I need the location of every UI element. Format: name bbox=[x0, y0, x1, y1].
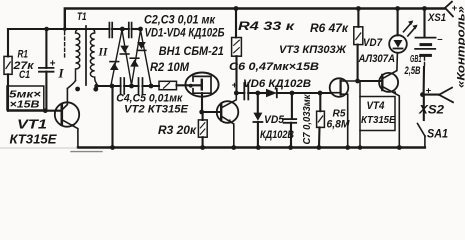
geiger tube BH1 anode bar bbox=[201, 80, 203, 90]
svg-text:VТ2 КТ315Е: VТ2 КТ315Е bbox=[124, 103, 189, 115]
diode VD5 bbox=[257, 93, 259, 113]
battery GB1 bbox=[423, 9, 425, 37]
diode VD2 leg bbox=[122, 30, 132, 85]
svg-text:КТ315Е: КТ315Е bbox=[361, 114, 396, 126]
connector XS2 bbox=[424, 94, 439, 96]
node junction rail (424.5,8.5) bbox=[422, 6, 427, 11]
node junction (292,93) bbox=[290, 91, 295, 96]
node junction (236.3,93) bbox=[234, 91, 239, 96]
svg-text:VТ3 КП303Ж: VТ3 КП303Ж bbox=[279, 44, 347, 56]
wire tube cathode down bbox=[201, 93, 203, 112]
wire C6 to VD6 bbox=[258, 92, 266, 94]
node junction (257.8,93) bbox=[255, 91, 260, 96]
svg-text:R4 33 к: R4 33 к bbox=[238, 21, 296, 33]
geiger tube BH1 cathode bbox=[193, 76, 211, 93]
wire between C2 C3 bbox=[112, 28, 129, 30]
capacitor C7 bbox=[291, 93, 293, 119]
svg-text:R2 10М: R2 10М bbox=[150, 60, 190, 74]
resistor R2 bbox=[159, 81, 177, 89]
svg-text:R3 20к: R3 20к bbox=[158, 123, 197, 137]
resistor R3 bbox=[202, 112, 204, 148]
node junction rail (318.9,147.5) bbox=[317, 145, 322, 150]
node junction (140.5,29) bbox=[138, 27, 143, 32]
wire shield dashed below rail corner bbox=[64, 32, 66, 58]
diode VD3 leg bbox=[132, 30, 141, 85]
capacitor C5 bbox=[138, 78, 140, 94]
node junction rail (347.7,147.5) bbox=[345, 145, 350, 150]
transistor VT4 bbox=[379, 73, 398, 92]
svg-text:VD7: VD7 bbox=[363, 37, 383, 49]
resistor R5 bbox=[319, 93, 320, 148]
svg-text:КД102В: КД102В bbox=[260, 129, 294, 141]
wire box edge to rail bbox=[359, 131, 361, 148]
svg-text:«Контроль»: «Контроль» bbox=[456, 6, 465, 88]
wire VT1 base bbox=[8, 110, 61, 112]
diode VD2 bbox=[120, 46, 129, 53]
switch SA1 bbox=[423, 95, 425, 120]
node junction rail (233.8,147.5) bbox=[231, 145, 236, 150]
svg-text:−: − bbox=[437, 35, 443, 46]
svg-text:XS2: XS2 bbox=[418, 103, 444, 117]
svg-text:XS1: XS1 bbox=[427, 12, 446, 24]
diode VD6 bbox=[266, 89, 277, 98]
svg-text:С1: С1 bbox=[19, 69, 30, 81]
wire T1 winding I bottom to VT1 collector bbox=[67, 81, 75, 89]
wire smudge below rail bbox=[71, 151, 102, 153]
transformer T1 core bbox=[85, 26, 87, 85]
capacitor C6 bbox=[236, 92, 257, 94]
svg-text:VТ1: VТ1 bbox=[17, 117, 47, 132]
wire VD6 to VT3 gate bbox=[277, 92, 331, 94]
transformer T1 winding I bbox=[76, 29, 80, 81]
node junction rail (399.3,147.5) bbox=[397, 145, 402, 150]
capacitor C2 bbox=[108, 23, 110, 38]
svg-text:VD6 КД102В: VD6 КД102В bbox=[243, 78, 311, 90]
node polarity dot winding I bbox=[75, 87, 80, 92]
node junction (320,93) bbox=[318, 91, 323, 96]
wire VT2 base bbox=[202, 111, 220, 113]
node junction rail (236,8.5) bbox=[234, 6, 239, 11]
svg-text:+: + bbox=[426, 86, 432, 97]
node junction (112,86) bbox=[110, 84, 115, 89]
svg-text:Т1: Т1 bbox=[77, 11, 87, 23]
node junction rail (258.3,147.5) bbox=[256, 145, 261, 150]
svg-text:R1: R1 bbox=[18, 49, 29, 61]
node junction rail (360,147.5) bbox=[358, 145, 363, 150]
svg-text:VD5: VD5 bbox=[264, 114, 285, 126]
diode VD1 bbox=[110, 63, 119, 70]
node junction rail (397.6,8.5) bbox=[395, 6, 400, 11]
diode VD3 bbox=[130, 59, 139, 66]
capacitor C3 bbox=[128, 23, 130, 38]
node junction rail (358.4,8.5) bbox=[356, 6, 361, 11]
transistor VT3 bbox=[330, 78, 349, 97]
resistor R6 bbox=[357, 9, 360, 82]
svg-text:I: I bbox=[58, 66, 65, 81]
node junction (46.8,29) bbox=[44, 27, 49, 32]
wire ground feeder from node 112 bbox=[111, 86, 113, 148]
diode VD4 bbox=[137, 42, 146, 49]
wire faint page crease bottom left bbox=[0, 147, 77, 149]
svg-text:II: II bbox=[98, 47, 108, 59]
svg-text:КТ315Е: КТ315Е bbox=[10, 132, 57, 147]
svg-text:С7 0,033мк: С7 0,033мк bbox=[302, 94, 313, 145]
svg-text:ВН1 СБМ-21: ВН1 СБМ-21 bbox=[159, 46, 224, 58]
wire node to VT4 label box bbox=[359, 81, 361, 97]
svg-text:6,8М: 6,8М bbox=[327, 118, 351, 130]
wire C3 to node2 bbox=[132, 28, 141, 30]
node junction rail (202.6,147.5) bbox=[200, 145, 205, 150]
geiger tube BH1 envelope bbox=[185, 73, 218, 97]
wire top supply rail bbox=[65, 9, 445, 30]
svg-text:С2,С3 0,01 мк: С2,С3 0,01 мк bbox=[144, 12, 216, 26]
transistor VT1 bbox=[55, 102, 79, 126]
svg-text:SА1: SА1 bbox=[427, 128, 448, 140]
diode VD4 leg bbox=[141, 30, 152, 85]
node junction rail (290.6,147.5) bbox=[288, 145, 293, 150]
wire VT3 drain to VT4 base bbox=[358, 80, 382, 82]
svg-text:С6 0,47мк×15В: С6 0,47мк×15В bbox=[229, 61, 319, 73]
node junction (122.3,29) bbox=[120, 27, 125, 32]
svg-text:GB1: GB1 bbox=[410, 54, 422, 65]
svg-text:R6 47к: R6 47к bbox=[310, 23, 349, 35]
node junction (151,86) bbox=[149, 84, 154, 89]
diode VD1 leg bbox=[111, 30, 122, 85]
capacitor C1 bbox=[45, 29, 47, 111]
resistor R1 bbox=[7, 29, 9, 111]
label box around VT4 bbox=[360, 97, 395, 131]
node polarity dot winding II bbox=[93, 87, 98, 92]
svg-text:×15В: ×15В bbox=[10, 99, 40, 111]
node junction (131.5,86) bbox=[129, 84, 134, 89]
wire R2 to tube anode bbox=[177, 84, 202, 86]
wire left branch y29 bbox=[8, 28, 109, 30]
label box around C1 value bbox=[7, 86, 44, 110]
svg-text:АЛ307А: АЛ307А bbox=[358, 53, 395, 65]
node junction (64.8,29) bbox=[63, 27, 67, 31]
transistor VT2 bbox=[217, 101, 239, 123]
node anode blob bbox=[189, 84, 193, 88]
capacitor C4 bbox=[120, 78, 122, 94]
node junction (357.6,81) bbox=[355, 79, 360, 84]
LED VD7 bbox=[397, 9, 399, 36]
connector XS1 bbox=[445, 2, 453, 17]
transformer T1 winding II bbox=[90, 29, 96, 86]
svg-text:+: + bbox=[232, 80, 238, 91]
node junction rail (112.5,147.5) bbox=[110, 145, 115, 150]
node junction (96.5,86) bbox=[94, 84, 98, 88]
svg-text:VD1-VD4 КД102Б: VD1-VD4 КД102Б bbox=[145, 27, 225, 39]
wire lower multiplier rail y86 bbox=[97, 85, 160, 87]
resistor R4 bbox=[235, 9, 238, 94]
svg-text:+: + bbox=[50, 58, 56, 69]
LED arrows bbox=[404, 22, 412, 32]
svg-text:2,5В: 2,5В bbox=[404, 65, 421, 77]
wire bottom ground rail bbox=[78, 146, 425, 148]
node junction (45.3,110.7) bbox=[43, 108, 48, 113]
svg-text:VТ4: VТ4 bbox=[367, 100, 385, 112]
node junction (201.7,112) bbox=[199, 110, 204, 115]
node junction (422.5,94.6) bbox=[420, 92, 425, 97]
